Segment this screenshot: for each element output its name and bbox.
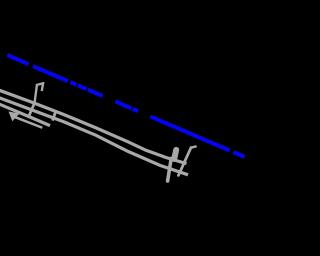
line A (top long line)	[0, 88, 187, 163]
right end bar	[178, 148, 191, 176]
gray pier structure	[0, 83, 197, 181]
one-way arrow	[9, 112, 43, 129]
line B (middle long line)	[0, 96, 188, 175]
cross bar 1 (A-B-C)	[28, 103, 34, 118]
thick up stub	[174, 150, 176, 159]
line C (short lower-left line)	[0, 102, 50, 126]
cross bar 2 (A-B)	[53, 112, 56, 121]
down stub	[168, 159, 172, 182]
right end top bar	[191, 146, 197, 148]
hook figure top-left	[35, 83, 44, 102]
blue dashed ferry route line	[7, 55, 244, 157]
